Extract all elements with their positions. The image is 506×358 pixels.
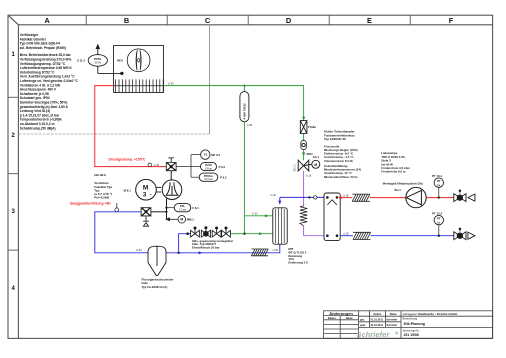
svg-text:PT 10.2: PT 10.2 (432, 212, 443, 216)
svg-text:Stadtwerke : Strecke GmbH: Stadtwerke : Strecke GmbH (418, 312, 457, 316)
frame column dividers (8, 15, 410, 250)
svg-text:Entleerung 2 S: Entleerung 2 S (288, 261, 308, 265)
text block Ladepumpe (381, 151, 423, 185)
supply hose connection (468, 194, 475, 201)
svg-text:bar: bar (437, 184, 441, 187)
svg-text:Schalldruckp.(50 dB(A): Schalldruckp.(50 dB(A) (20, 126, 56, 130)
instrument pill PZL F8.1 (167, 207, 175, 209)
svg-text:Druckgastemp. +105°C: Druckgastemp. +105°C (109, 158, 146, 162)
plate heat exchanger (324, 193, 340, 240)
svg-text:∅ 16: ∅ 16 (306, 174, 312, 177)
svg-text:∅ 28: ∅ 28 (343, 195, 349, 198)
svg-text:PZOI: PZOI (205, 163, 212, 167)
svg-text:Schriefer: Schriefer (386, 324, 397, 327)
package boundary (gray scope box) (19, 25, 210, 134)
svg-text:SB 1.1: SB 1.1 (293, 164, 296, 172)
instrument PT 10.1 (434, 178, 443, 198)
svg-text:Typ 240/0047-00: Typ 240/0047-00 (324, 137, 346, 141)
node: suction branch tee (177, 252, 179, 254)
wire green: filter to sight glass (303, 133, 305, 140)
svg-text:Datum: Datum (328, 317, 337, 320)
discharge service valve (166, 158, 176, 171)
svg-text:SH.1: SH.1 (394, 188, 401, 192)
svg-text:MM.1: MM.1 (187, 218, 194, 222)
svg-text:Typ FA-2008-13 (A): Typ FA-2008-13 (A) (142, 285, 168, 289)
temperature sensor on discharge line (148, 163, 152, 167)
svg-text:Sauggasüberhitzung +8K: Sauggasüberhitzung +8K (70, 202, 111, 206)
svg-text:gepr.: gepr. (360, 324, 366, 327)
return hose connection (468, 232, 475, 239)
svg-text:B: B (124, 16, 129, 25)
svg-text:M: M (180, 218, 183, 222)
svg-text:3,2 bar: 3,2 bar (179, 209, 186, 212)
expansion valve with motor actuator AA.1 (298, 160, 320, 171)
coupling (156, 187, 161, 192)
instrument circle MM.1 (oil) (166, 216, 185, 224)
svg-text:bar: bar (437, 221, 441, 224)
svg-text:∅ 28: ∅ 28 (343, 233, 349, 236)
svg-text:✳: ✳ (394, 330, 399, 337)
svg-text:50 Pa: 50 Pa (95, 62, 102, 65)
node: PT10.1 tap (438, 196, 440, 198)
injection coil on purple line (300, 206, 307, 226)
node: liquid line junction (243, 233, 245, 235)
suction service valve (141, 208, 151, 227)
compressor text block HB 1B.b (94, 173, 112, 199)
svg-text:Auftraggeber:: Auftraggeber: (403, 313, 418, 316)
svg-text:Name: Name (346, 317, 353, 320)
svg-text:A: A (44, 16, 50, 25)
frame column letters (44, 16, 453, 25)
blue flow arrow (199, 251, 203, 254)
instrument pill PZOI P9.2 (201, 162, 217, 170)
coil on suction line (flex) (251, 249, 268, 256)
frame row numbers (12, 52, 16, 292)
wire red: discharge line condenser inlet (95, 86, 167, 167)
svg-text:201 19/08: 201 19/08 (404, 333, 419, 337)
accumulator text (142, 278, 175, 289)
green flow arrows into evaporator (265, 214, 269, 217)
wire blue: load return to HX (340, 235, 454, 237)
svg-text:PT: PT (437, 217, 441, 221)
svg-text:C: C (205, 16, 211, 25)
svg-text:F: F (449, 16, 454, 25)
svg-text:Förderhöhe 6,0 m: Förderhöhe 6,0 m (381, 170, 406, 174)
svg-text:AA.1: AA.1 (313, 155, 320, 159)
instrument PT 10.2 (434, 215, 443, 235)
svg-text:Schriefer: Schriefer (357, 330, 391, 339)
svg-text:S 11.2: S 11.2 (77, 59, 85, 63)
node: vapour line junction (308, 196, 310, 198)
svg-text:∅ 28: ∅ 28 (247, 124, 253, 127)
wire black: compressor suction and instrument drop (151, 199, 167, 220)
instrument PZSL S11.2 (88, 45, 123, 75)
instrument TI circle F9.2 (201, 150, 210, 159)
compressor motor M 3~ (136, 179, 157, 200)
svg-text:∅ 42: ∅ 42 (270, 194, 276, 197)
pump SH.1 (406, 187, 426, 207)
evaporator shell-and-tube vessel (273, 208, 287, 244)
sight glass (301, 140, 306, 149)
filter drier (300, 121, 307, 134)
supply ball valve (454, 194, 466, 202)
svg-text:M 8.1: M 8.1 (124, 189, 132, 193)
wire blue: suction line (95, 212, 280, 253)
svg-text:Pel=4,5kW: Pel=4,5kW (94, 196, 109, 200)
node: valve train inlet (186, 232, 189, 235)
title block (324, 311, 493, 339)
svg-text:D: D (286, 16, 292, 25)
svg-text:∅ 22: ∅ 22 (252, 212, 258, 215)
node: liquid header tee (243, 85, 245, 87)
svg-text:gez.: gez. (360, 319, 365, 322)
svg-text:NF.8: NF.8 (117, 59, 123, 63)
wire green: condenser outlet to expansion group (164, 86, 304, 122)
svg-text:19 bar: 19 bar (205, 167, 212, 170)
text block evaporator spec (324, 130, 355, 142)
wire blue: evaporator vapour line to plate HX (280, 197, 324, 203)
green arrow into filter drier (302, 117, 305, 121)
svg-text:M: M (314, 163, 317, 167)
HX port nodes (326, 196, 329, 199)
svg-text:∅ 35: ∅ 35 (272, 249, 278, 252)
svg-text:F709a: F709a (308, 125, 316, 129)
svg-text:Schriefer: Schriefer (386, 319, 397, 322)
blue flow arrow into evaporator (278, 201, 281, 205)
muffler / filter capsule on liquid line (240, 86, 249, 122)
wire green: capsule down to evaporator feeds (244, 122, 272, 234)
svg-text:01.10.2011: 01.10.2011 (371, 324, 384, 327)
svg-text:3: 3 (143, 192, 147, 199)
safety valve train (4x interlocked) (191, 227, 231, 238)
svg-text:22,5 bar: 22,5 bar (204, 178, 213, 181)
svg-text:HB 1B.b: HB 1B.b (94, 173, 106, 177)
compressor body (162, 180, 182, 200)
svg-text:TI: TI (204, 153, 207, 157)
flex coil on supply (352, 194, 370, 201)
svg-text:P 9.3: P 9.3 (220, 175, 227, 179)
svg-text:Bezeichnung: Bezeichnung (403, 318, 418, 321)
svg-text:P 9.2: P 9.2 (219, 165, 226, 169)
condenser W1 (air cooled, fan unit) (114, 46, 164, 93)
wire purple: expansion outlet (304, 171, 324, 236)
wire green: sight glass to expansion valve (303, 150, 305, 161)
svg-text:∅ 54: ∅ 54 (136, 249, 142, 252)
svg-text:M: M (143, 184, 148, 191)
return ball valve (454, 232, 466, 240)
evaporator notes (288, 247, 308, 265)
wire black: compressor discharge riser (170, 171, 172, 181)
condenser coil hatch (114, 79, 164, 92)
instrument pill PZOH+ P9.3 (199, 173, 218, 181)
svg-text:∅ 15: ∅ 15 (154, 164, 160, 167)
instrument impulse line to pressure devices (176, 155, 201, 178)
text block brine spec (324, 144, 361, 178)
notes text block (condenser specification) (20, 33, 79, 130)
flex coil on return (353, 232, 371, 239)
svg-text:Zeichnungs-Nr.: Zeichnungs-Nr. (403, 329, 420, 332)
condenser fan circle (127, 49, 150, 72)
svg-text:KW-Planung: KW-Planung (404, 322, 425, 326)
svg-text:Einstelldruck 25 bar: Einstelldruck 25 bar (192, 246, 220, 250)
wire blue: branch to safety valve train (179, 234, 191, 253)
wire red: HX to load supply (340, 197, 454, 199)
svg-text:Änderungen: Änderungen (329, 311, 353, 316)
svg-text:PZL: PZL (180, 204, 186, 208)
svg-text:01.10.2011: 01.10.2011 (371, 319, 384, 322)
sensor pocket on vapour line (314, 196, 317, 199)
svg-text:Name: Name (390, 313, 397, 316)
svg-text:PZSL: PZSL (94, 57, 102, 61)
svg-text:Volumenstrom 6,0 l/h: Volumenstrom 6,0 l/h (324, 159, 353, 163)
svg-text:Montage& Minijetspülset (2h): Montage& Minijetspülset (2h) (383, 182, 423, 186)
svg-text:Datum: Datum (374, 313, 383, 316)
svg-text:PT: PT (437, 179, 441, 183)
svg-text:PT 10.1: PT 10.1 (432, 174, 443, 178)
svg-text:∅ 35: ∅ 35 (168, 82, 174, 85)
valve train note (192, 239, 234, 250)
wire green: train to evaporator (230, 233, 244, 235)
svg-text:zul. Betriebsdr. Propan (R290): zul. Betriebsdr. Propan (R290) (20, 46, 66, 50)
suction accumulator (148, 246, 166, 275)
node: HX supply outlet (339, 196, 342, 199)
svg-text:E: E (367, 16, 372, 25)
svg-text:4 NW 70012: 4 NW 70012 (243, 103, 247, 119)
svg-text:MF 9.2: MF 9.2 (211, 153, 220, 157)
svg-text:Mindestdurchfluss 70 l/s: Mindestdurchfluss 70 l/s (324, 175, 358, 179)
node: PT10.2 tap (438, 235, 440, 237)
suction gas sensor (115, 203, 119, 212)
svg-text:F 8.1: F 8.1 (192, 206, 199, 210)
svg-text:PZOH+: PZOH+ (204, 174, 214, 178)
